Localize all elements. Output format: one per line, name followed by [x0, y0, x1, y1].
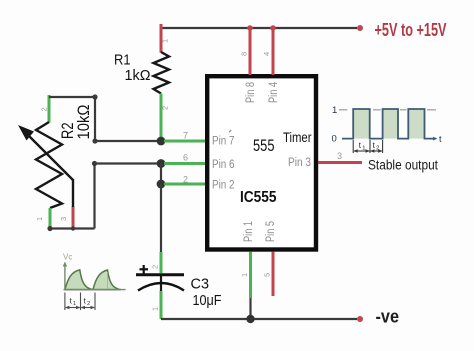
wire: R2 bottom link	[50, 227, 95, 229]
svg-text:Timer: Timer	[283, 130, 312, 145]
svg-text:1: 1	[73, 301, 76, 307]
svg-text:Pin 4: Pin 4	[268, 82, 280, 103]
svg-text:+5V to +15V: +5V to +15V	[375, 20, 447, 40]
svg-text:3: 3	[337, 151, 342, 161]
svg-text:C3: C3	[191, 276, 210, 293]
wire: pin6 to pin2	[160, 164, 162, 185]
svg-text:1: 1	[362, 145, 365, 151]
svg-text:8: 8	[240, 52, 249, 56]
node: pin2 junction	[157, 180, 166, 189]
wire: R2 top to R1 bottom (pin 7 net)	[49, 97, 158, 141]
svg-text:1: 1	[151, 307, 160, 311]
svg-text:2: 2	[376, 145, 379, 151]
svg-text:Vc: Vc	[63, 253, 72, 262]
svg-text:Pin 2: Pin 2	[212, 180, 235, 192]
IC U1 (555 timer) box	[207, 76, 316, 249]
svg-text:7: 7	[183, 131, 188, 141]
svg-text:Pin 5: Pin 5	[265, 221, 277, 242]
wire: pin8 red	[249, 27, 252, 75]
svg-text:Pin 3: Pin 3	[288, 157, 311, 169]
svg-text:2: 2	[183, 175, 188, 185]
svg-text:-ve: -ve	[376, 306, 400, 327]
wire: pin2 to C3	[160, 184, 162, 252]
svg-text:Pin 7: Pin 7	[212, 136, 235, 148]
wire: pin1 green	[249, 252, 252, 299]
node: pin7 junction	[157, 137, 166, 146]
wire: pin4 red	[272, 27, 275, 75]
svg-text:3: 3	[59, 217, 68, 221]
svg-text:Stable output: Stable output	[368, 158, 438, 173]
wire: pin6 net	[95, 164, 159, 229]
wire: pin5 red stub	[272, 252, 275, 297]
svg-text:1: 1	[240, 273, 249, 277]
svg-text:1: 1	[332, 105, 337, 116]
svg-text:1kΩ: 1kΩ	[125, 67, 151, 84]
svg-text:1: 1	[35, 217, 44, 221]
chart: capacitor voltage waveform Vc	[63, 253, 126, 311]
svg-text:Pin 1: Pin 1	[243, 221, 255, 242]
svg-text:2: 2	[87, 301, 90, 307]
svg-text:t: t	[439, 134, 442, 144]
node: -ve terminal dot	[357, 316, 363, 322]
svg-text:Pin 8: Pin 8	[245, 82, 257, 103]
wire: pin3 output red	[318, 161, 362, 164]
wire: pin6 green	[164, 162, 207, 165]
node: pin1-rail junction	[246, 315, 254, 323]
svg-text:10kΩ: 10kΩ	[74, 105, 93, 140]
wire: +V top rail	[161, 27, 357, 29]
wire: pin7 green	[164, 140, 207, 143]
svg-text:5: 5	[263, 273, 272, 277]
svg-text:Pin 6: Pin 6	[212, 159, 235, 171]
svg-text:2: 2	[151, 265, 160, 269]
wire: ground rail	[161, 318, 357, 320]
svg-text:10μF: 10μF	[193, 292, 222, 309]
svg-text:R1: R1	[114, 52, 131, 69]
svg-text:555: 555	[253, 136, 275, 155]
potentiometer R2	[18, 95, 73, 229]
resistor R1	[154, 24, 170, 140]
capacitor C3	[136, 265, 184, 319]
node: pin6 junction	[157, 159, 166, 168]
svg-text:0: 0	[332, 133, 337, 144]
svg-text:6: 6	[183, 153, 188, 163]
svg-text:2: 2	[161, 106, 170, 110]
wire: pin2 green	[164, 183, 207, 186]
chart: square wave output	[332, 105, 443, 153]
svg-text:2: 2	[40, 107, 49, 111]
svg-text:IC555: IC555	[240, 189, 277, 206]
node: +V terminal dot	[357, 25, 363, 31]
svg-text:4: 4	[262, 52, 271, 56]
svg-text:1: 1	[161, 39, 170, 43]
